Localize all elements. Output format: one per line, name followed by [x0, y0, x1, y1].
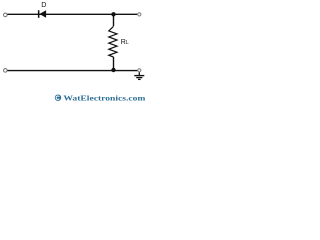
terminal T4 (ground terminal circle) [138, 69, 141, 72]
diode D (cathode bar) [38, 10, 40, 18]
wire ground stub [138, 72, 140, 75]
terminal T3 (bottom-left) [4, 69, 8, 73]
terminal T1 (top-left input) [4, 13, 8, 17]
wire top rail [7, 13, 137, 15]
svg-text:WatElectronics.com: WatElectronics.com [63, 93, 146, 102]
svg-text:RL: RL [121, 39, 129, 46]
node junction top [111, 12, 115, 16]
node junction bottom [111, 68, 115, 72]
terminal T2 (top-right) [138, 13, 141, 16]
ground bar 1 [134, 75, 144, 77]
ground bar 2 [136, 77, 142, 79]
diode D (anode triangle) [39, 10, 46, 17]
watermark copyright symbol [55, 95, 61, 101]
wire resistor top lead [113, 14, 115, 26]
wire resistor bottom lead [113, 57, 115, 70]
svg-text:D: D [41, 0, 46, 9]
resistor RL zigzag [109, 26, 117, 57]
wire bottom rail [7, 70, 137, 72]
ground bar 3 [138, 78, 141, 80]
